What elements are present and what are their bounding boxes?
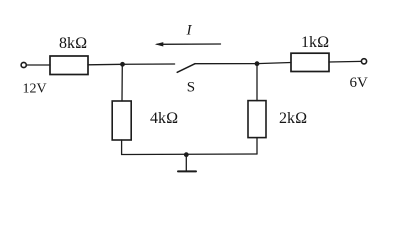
svg-text:2kΩ: 2kΩ [279, 110, 307, 127]
svg-text:1kΩ: 1kΩ [301, 34, 329, 51]
svg-text:I: I [186, 23, 193, 39]
svg-text:4kΩ: 4kΩ [150, 110, 178, 127]
svg-text:8kΩ: 8kΩ [59, 35, 87, 52]
svg-text:6V: 6V [350, 75, 369, 91]
svg-text:12V: 12V [23, 82, 47, 97]
svg-text:S: S [187, 79, 195, 95]
